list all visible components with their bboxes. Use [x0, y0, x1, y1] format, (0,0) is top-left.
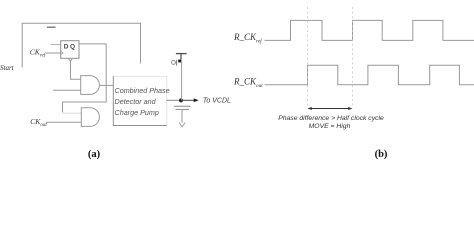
AND gate G1	[81, 76, 100, 95]
VDD rail	[176, 54, 187, 60]
svg-text:Start: Start	[0, 64, 15, 72]
svg-text:(b): (b)	[375, 149, 388, 160]
wire: AND1 output to block	[99, 84, 113, 86]
guide: dashed line 2	[352, 7, 354, 105]
arrow head To VCDL	[194, 98, 199, 102]
AND gate G2	[81, 108, 99, 127]
phase difference double arrow	[307, 107, 352, 110]
wire: AND1 lower input	[53, 89, 81, 91]
block: Combined Phase Detector and Charge Pump	[113, 76, 169, 126]
waveform R_CK_ref	[265, 20, 474, 40]
transistor M1 (PMOS current source)	[172, 60, 182, 66]
wire: node to arrow	[181, 99, 195, 101]
capacitor C1	[174, 106, 191, 109]
wire: drain down to node	[181, 60, 183, 100]
svg-text:MOVE = High: MOVE = High	[309, 123, 351, 130]
wire: DFF D input	[51, 44, 61, 46]
D flip-flop U1	[61, 41, 79, 59]
wire: CK_out to AND2 lower input	[46, 121, 81, 123]
svg-text:To VCDL: To VCDL	[203, 98, 231, 105]
svg-text:Charge Pump: Charge Pump	[115, 108, 159, 117]
svg-text:Detector and: Detector and	[115, 97, 157, 106]
waveform R_CK_out	[265, 65, 474, 84]
wire: Q down and around to AND2 top input	[63, 44, 107, 113]
inverted-output marker under DFF	[69, 59, 73, 62]
wire: block output to node	[167, 99, 182, 101]
wire: Start rail up, across top, down	[22, 23, 140, 67]
svg-text:Phase difference > Half clock: Phase difference > Half clock cycle	[278, 115, 384, 122]
svg-text:Q: Q	[70, 44, 75, 51]
wire: short dash near top-left	[47, 26, 56, 28]
svg-text:(a): (a)	[88, 149, 101, 160]
wire: CK_ref to DFF clock	[45, 52, 60, 54]
svg-text:Combined Phase: Combined Phase	[115, 86, 170, 95]
svg-text:D: D	[64, 44, 69, 51]
wire: Qbar down to AND1 top input	[71, 62, 81, 80]
ground	[179, 123, 185, 127]
guide: dashed line 1	[306, 7, 308, 105]
wire: capacitor to ground	[181, 109, 183, 122]
node: VCDL control node	[179, 98, 183, 102]
wire: DFF Q output	[79, 43, 106, 45]
